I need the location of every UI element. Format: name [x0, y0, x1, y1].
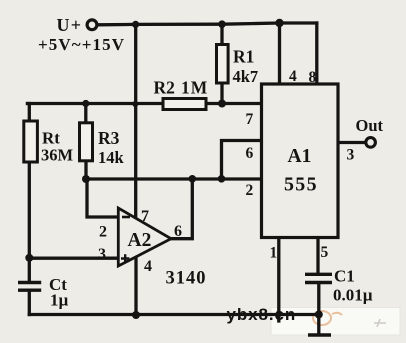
- wire: left rail middle (Rt bottom to Ct top): [28, 162, 31, 281]
- svg-text:4k7: 4k7: [233, 67, 259, 86]
- wire: left rail lower (Ct bottom to bottom rail): [28, 292, 31, 315]
- resistor R2: [163, 99, 206, 110]
- wire: pin8 drop to A1 top: [315, 23, 318, 84]
- watermark band: [271, 308, 400, 336]
- svg-text:C1: C1: [334, 267, 355, 286]
- junction: top rail / V+ vertical: [132, 21, 139, 28]
- junction: left rail / A2 plus input: [25, 254, 33, 262]
- junction: pin1 / ground rail: [276, 311, 282, 317]
- wire: R1 top lead: [220, 24, 223, 44]
- wire: R3 bottom lead: [84, 161, 87, 179]
- svg-text:6: 6: [246, 145, 254, 162]
- svg-text:4: 4: [144, 258, 152, 275]
- svg-text:7: 7: [141, 208, 149, 225]
- svg-text:2: 2: [99, 224, 107, 241]
- junction: R3 top: [82, 100, 89, 107]
- svg-text:R3: R3: [98, 128, 120, 148]
- svg-text:36M: 36M: [41, 146, 74, 165]
- wire: left rail upper (corner to Rt): [28, 104, 30, 122]
- wire: R2 right to 555 pin7: [206, 102, 262, 105]
- svg-text:R2: R2: [154, 78, 175, 98]
- svg-text:Out: Out: [356, 116, 384, 135]
- junction: pin6 bracket / pin2 net: [218, 175, 226, 183]
- junction: C1 / ground rail: [315, 311, 323, 319]
- svg-text:3140: 3140: [166, 269, 207, 289]
- junction: A2 pin4 / ground rail: [132, 311, 140, 319]
- junction: R1 bottom / R2 right / pin7: [218, 100, 226, 108]
- svg-text:2: 2: [246, 182, 254, 199]
- svg-text:4: 4: [289, 68, 297, 85]
- wire: bottom ground rail: [29, 313, 319, 316]
- svg-text:555: 555: [284, 174, 318, 196]
- svg-text:6: 6: [174, 223, 182, 240]
- svg-text:+5V~+15V: +5V~+15V: [38, 35, 125, 54]
- svg-text:1: 1: [270, 245, 278, 262]
- svg-text:3: 3: [347, 147, 355, 164]
- capacitor C1: [305, 274, 332, 282]
- wire: R3 top lead: [84, 104, 87, 123]
- terminal Out: [366, 138, 376, 148]
- wire: A2 non-inverting input: [29, 257, 118, 260]
- wire: upper horizontal net (Rt/R3 tops to R2 left): [28, 102, 164, 105]
- svg-text:U+: U+: [57, 15, 83, 35]
- watermark orange scribble: [313, 311, 386, 327]
- wire: trigger/threshold net to 555 pin2: [86, 177, 262, 180]
- resistor R1: [217, 45, 229, 84]
- junction: top rail / R1 top: [218, 20, 226, 28]
- svg-text:8: 8: [309, 69, 317, 86]
- junction: R3 bottom: [82, 175, 90, 183]
- svg-text:3: 3: [98, 246, 106, 263]
- wire: pin6 bracket: [222, 141, 262, 180]
- minus input mark: [122, 216, 130, 219]
- resistor Rt: [24, 121, 38, 162]
- junction: A2 output / pin2 net: [189, 175, 197, 183]
- svg-text:1µ: 1µ: [50, 291, 69, 310]
- IC A1 555: [262, 84, 339, 238]
- svg-text:ybx8.cn: ybx8.cn: [227, 305, 297, 324]
- capacitor Ct: [18, 283, 41, 291]
- svg-text:A2: A2: [128, 230, 152, 251]
- terminal U+: [87, 20, 97, 30]
- op-amp A2: [118, 208, 171, 266]
- junction: top rail / pin4 drop: [275, 19, 283, 27]
- svg-text:A1: A1: [288, 146, 312, 167]
- svg-text:7: 7: [246, 111, 254, 128]
- wire: V+ vertical from rail to A2 pin7: [134, 24, 137, 218]
- wire: C1 bottom lead to ground: [317, 285, 320, 334]
- svg-text:1M: 1M: [181, 78, 208, 98]
- wire: A2 pin4 to ground rail: [134, 257, 137, 316]
- wire: 555 pin1 drop: [277, 238, 280, 322]
- svg-text:5: 5: [321, 244, 329, 261]
- wire: 555 pin5 drop to C1: [316, 238, 319, 273]
- wire: 555 pin3 to Out terminal: [338, 141, 364, 144]
- svg-text:R1: R1: [233, 47, 254, 67]
- wire: pin4 drop to A1 top: [278, 23, 281, 84]
- svg-text:14k: 14k: [98, 148, 125, 167]
- wire: +V top rail: [99, 23, 317, 25]
- resistor R3: [80, 123, 93, 161]
- svg-text:0.01µ: 0.01µ: [333, 286, 373, 305]
- junction: upper net / V+ vertical: [132, 101, 138, 107]
- plus input mark: [121, 254, 129, 262]
- ground: [308, 333, 331, 337]
- wire: A2 output up to pin2/6 net: [171, 179, 192, 239]
- wire: R1 bottom lead: [220, 83, 223, 104]
- wire: A2 inverting input branch: [87, 179, 119, 217]
